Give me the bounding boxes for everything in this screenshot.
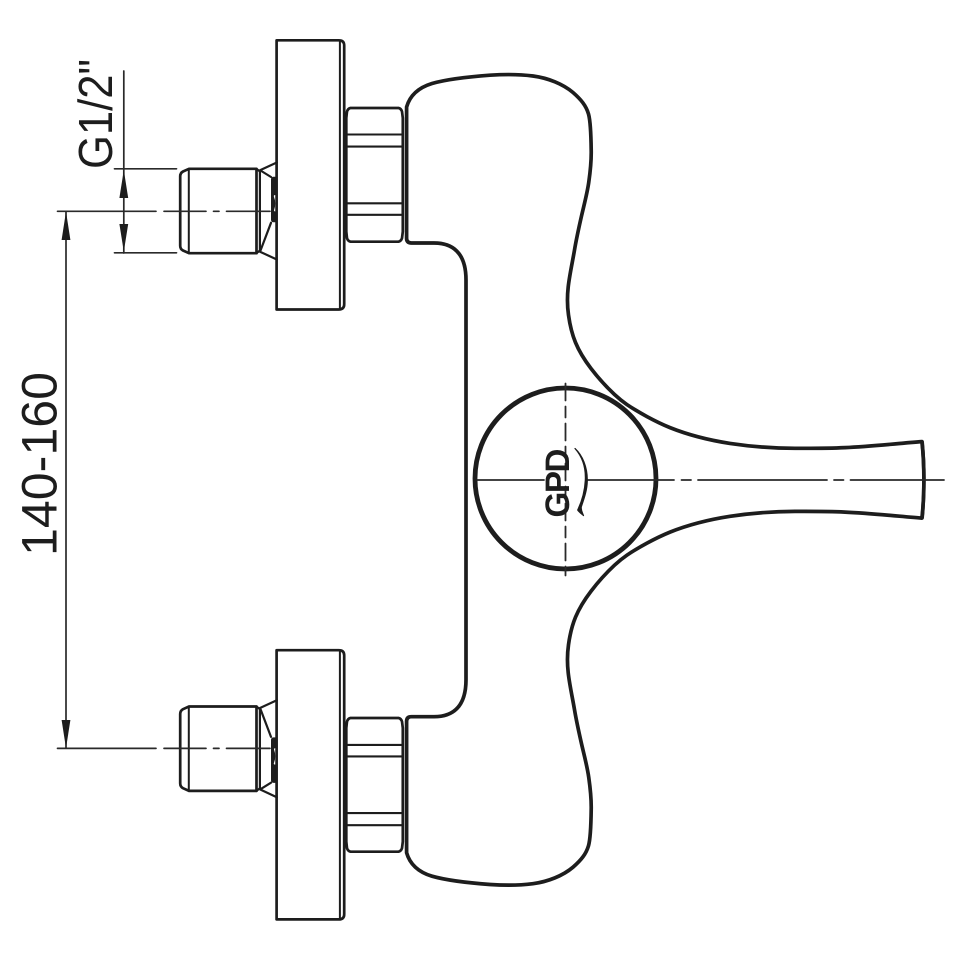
- union hex nut (top): [346, 108, 403, 242]
- pipe end edge (top): [257, 169, 260, 253]
- body outline of mixer: [407, 75, 924, 886]
- dimension G1/2 line: [123, 71, 125, 253]
- flange front face line (bottom): [339, 651, 341, 918]
- arrow up (140-160): [62, 212, 71, 241]
- arrow down (G1/2): [119, 224, 128, 252]
- threaded inlet pipe (bottom): [180, 707, 256, 791]
- nut face lines (top): [348, 135, 402, 215]
- pipe thread relief line (top): [188, 170, 190, 253]
- seal ring highlight (bottom): [275, 749, 277, 763]
- arrow down (140-160): [62, 720, 71, 748]
- nut face lines (bottom): [348, 745, 402, 825]
- wall flange plate (top): [277, 40, 345, 309]
- connector cone (bottom): [260, 700, 277, 797]
- handle knob circle: [475, 388, 656, 569]
- svg-text:GPD: GPD: [539, 449, 577, 517]
- wall flange plate (bottom): [277, 650, 345, 919]
- svg-text:G1/2": G1/2": [70, 59, 123, 169]
- seal ring highlight (top): [275, 196, 277, 210]
- handle end face: [922, 442, 924, 517]
- seal ring (bottom): [271, 737, 278, 783]
- union hex nut (bottom): [346, 718, 403, 852]
- arrow up (G1/2): [119, 170, 128, 198]
- connector cone (top): [260, 163, 277, 260]
- flange front face line (top): [339, 42, 341, 309]
- dimension 140-160 line: [65, 212, 67, 748]
- G1/2 extension line bottom: [115, 252, 177, 254]
- logo swoosh: [575, 449, 587, 516]
- G1/2 extension line top: [115, 168, 177, 170]
- svg-text:140-160: 140-160: [12, 372, 68, 556]
- pipe thread relief line (bottom): [188, 707, 190, 790]
- seal ring (top): [271, 177, 278, 223]
- pipe end edge (bottom): [257, 707, 260, 791]
- handle horizontal centerline: [478, 479, 945, 481]
- top pipe centerline: [58, 210, 271, 212]
- threaded inlet pipe (top): [180, 169, 256, 253]
- bottom pipe centerline: [58, 747, 271, 749]
- circle vertical centerline: [565, 384, 567, 576]
